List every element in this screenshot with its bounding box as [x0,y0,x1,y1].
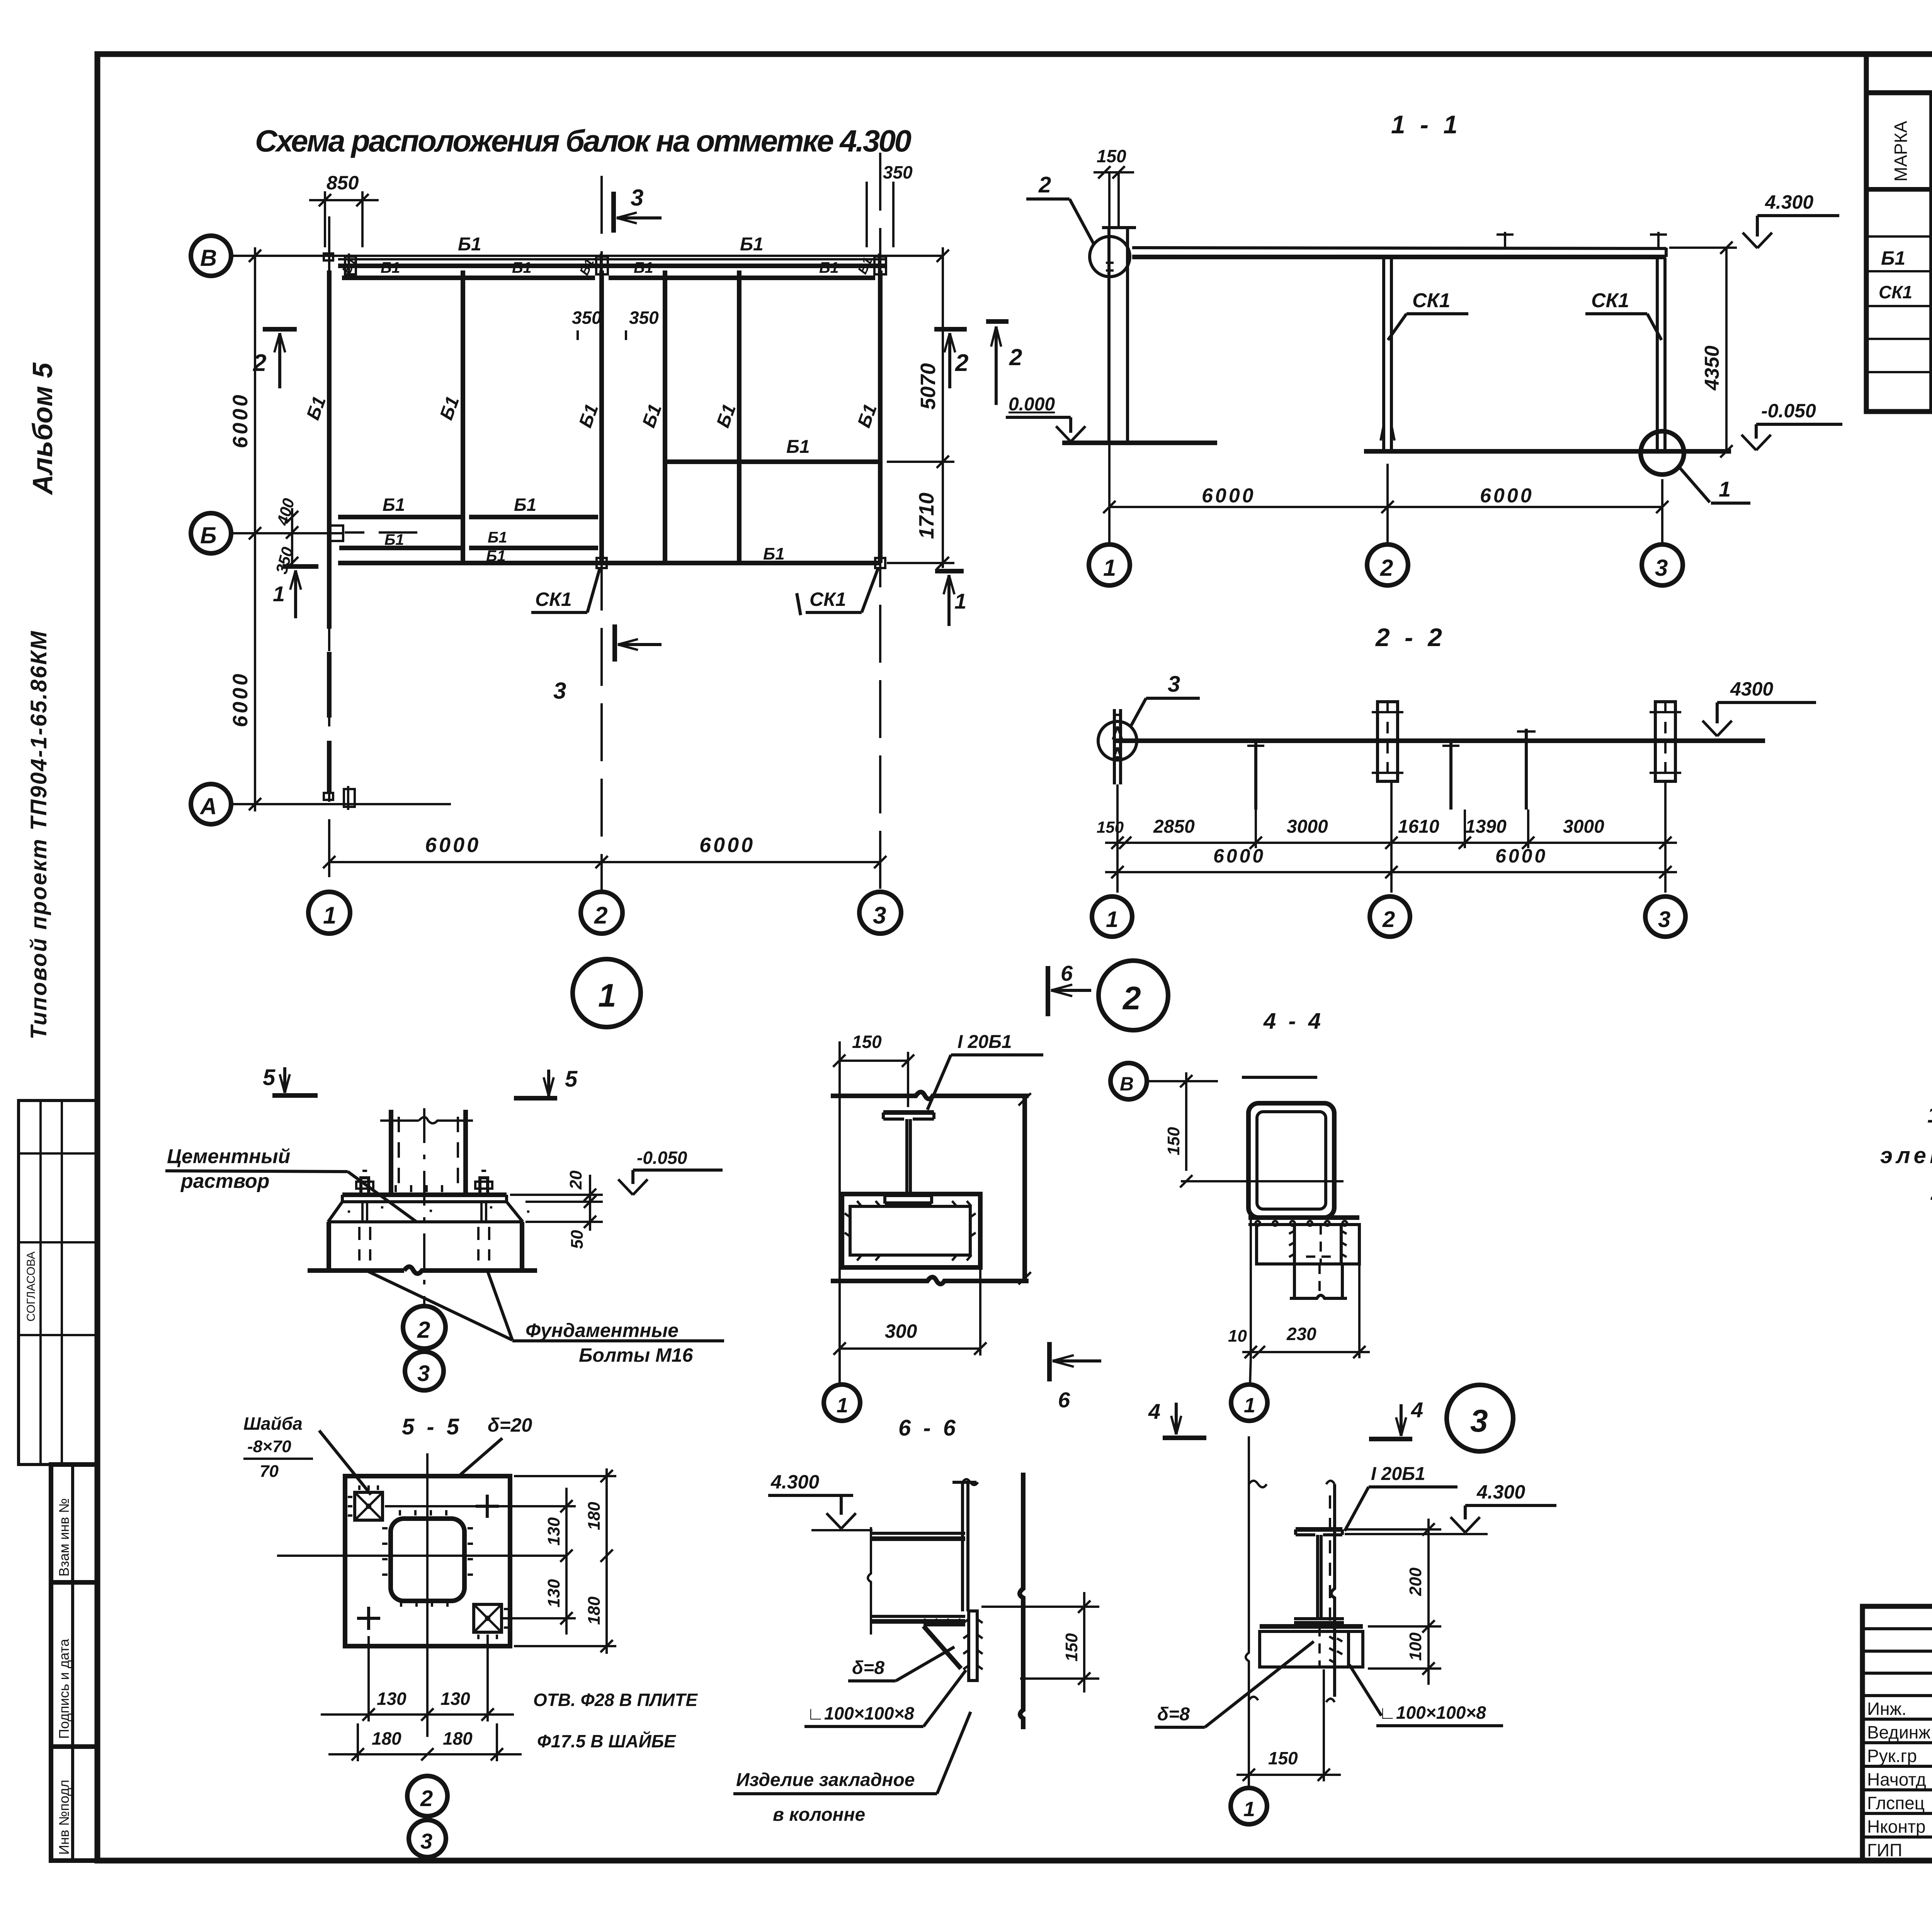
svg-text:2: 2 [420,1786,433,1811]
bolt cross top-right [476,1495,499,1518]
svg-text:1: 1 [1719,477,1731,501]
svg-text:130: 130 [544,1517,563,1546]
embedded plate inner [845,1201,976,1260]
svg-text:3: 3 [417,1361,430,1386]
СК1 post at 2/Б-line [597,558,607,568]
svg-text:4.300: 4.300 [1765,191,1813,213]
bracket of 4-4 [1257,1225,1359,1264]
cross beams Б1 at y=1403 [339,529,598,548]
svg-text:Цементный: Цементный [167,1145,290,1168]
svg-text:180: 180 [585,1596,604,1625]
second dimension row 6000/6000 of section 2-2 [1105,845,1677,878]
beam bottom flange [871,1616,965,1621]
svg-text:1710: 1710 [915,493,938,539]
svg-text:ГИП: ГИП [1867,1840,1902,1860]
note line 3 [1930,1180,1932,1205]
big detail circle 3 [1447,1385,1513,1451]
СК1 label middle [1388,289,1468,340]
svg-text:СК1: СК1 [535,589,572,610]
grid circle 1 of section 1-1 [1089,544,1130,585]
svg-text:Инж.: Инж. [1867,1699,1906,1719]
embedded niche outer [842,1194,980,1267]
svg-text:4: 4 [1411,1398,1423,1422]
detail leader circle 3 at left [1098,672,1200,760]
note line 2 [1880,1143,1932,1168]
svg-text:СК1: СК1 [1412,289,1450,312]
svg-text:6000: 6000 [1202,485,1256,507]
element table ВЕДОМОСТЬ ЭЛЕМЕНТОВ [1866,54,1932,412]
cross beams Б1 at y=1325 [338,495,598,517]
beam mark tick 2 on roof [1650,232,1667,247]
svg-text:1. Конструкции сварные Сварк: 1. Конструкции сварные Сварку производит… [1927,1102,1932,1128]
margin stamp box Взам инв № [51,1465,97,1582]
svg-text:Б1: Б1 [512,259,532,276]
first dimension row of section 2-2 [1097,781,1677,893]
I-beam right node [1294,1529,1344,1623]
I-beam section [883,1112,934,1204]
svg-text:раствор: раствор [180,1170,269,1192]
grid circle Б [191,513,231,553]
left extension line with break [868,1527,871,1635]
bottom dim 130/130 [321,1636,514,1721]
svg-text:Подпись и дата: Подпись и дата [56,1638,72,1739]
label Фундаментные болты М16 [368,1271,724,1366]
svg-text:Болты М16: Болты М16 [579,1344,694,1366]
detail circle 1 at right column base [1641,431,1750,503]
left edge line of 4-4 [1250,1218,1252,1358]
svg-text:3000: 3000 [1563,816,1604,837]
svg-text:Б: Б [200,522,216,548]
СК1 label left [531,569,600,612]
svg-text:5 - 5: 5 - 5 [402,1414,462,1439]
svg-text:150: 150 [1268,1748,1298,1768]
column symbol at Б/1 [328,526,343,541]
svg-text:δ=8: δ=8 [1157,1704,1190,1725]
detail circles 2/3 of base detail [403,1306,446,1349]
svg-text:1: 1 [1243,1798,1255,1821]
grout layer цементный раствор [328,1202,529,1222]
svg-text:Взам инв №: Взам инв № [56,1498,72,1577]
washer bottom-right [474,1604,509,1639]
svg-text:I 20Б1: I 20Б1 [957,1032,1012,1052]
margin stamp box Подпись и дата [51,1582,97,1747]
grid line row Б [231,532,344,534]
svg-text:СК1: СК1 [810,589,846,610]
svg-text:1390: 1390 [1465,816,1507,837]
svg-text:3: 3 [1470,1403,1488,1439]
svg-text:В: В [1120,1073,1134,1095]
svg-text:Б1: Б1 [786,437,810,457]
baseline left of section 1-1 [1062,441,1217,445]
small dims 400/350 near row Б [272,496,298,576]
svg-text:Б1: Б1 [514,495,536,515]
centre lines of plate [277,1453,566,1737]
grid circle 3 [859,892,901,934]
right dimension line 5070/1710 [887,247,954,569]
svg-text:МАРКА: МАРКА [1891,121,1911,182]
section marker 1 left [273,566,318,618]
legs below bracket of 4-4 [1290,1264,1347,1298]
dims 10/230 of 4-4 [1228,1266,1370,1358]
svg-text:200: 200 [1406,1567,1425,1596]
svg-text:6000: 6000 [425,833,481,857]
grid line row А [231,803,451,805]
grid circle 1 of section 2-2 [1092,896,1132,937]
title 5-5 [402,1414,462,1439]
elevation 4.300 right node [1345,1481,1556,1534]
svg-text:СОГЛАСОВА: СОГЛАСОВА [25,1252,37,1322]
bottom dimension line 6000/6000 [323,833,886,868]
ground line under foundation [308,1267,537,1274]
elevation 4.300 right [1743,191,1839,248]
svg-text:СК1: СК1 [1591,289,1629,312]
svg-text:6000: 6000 [1213,845,1265,867]
elevation -0.050 at base detail [618,1148,723,1195]
svg-text:4350: 4350 [1701,345,1723,391]
section marker 4 right [1369,1398,1423,1439]
grid circle 2 [581,892,622,934]
section marker 2 arrow left [986,321,1022,405]
section marker 5 right [514,1067,578,1098]
small beam labels Б1 under row В [339,255,876,277]
grid circle 1 right node [1231,1788,1267,1824]
far right dim 180/180 [514,1468,616,1654]
svg-text:Альбом 5: Альбом 5 [27,362,58,495]
svg-text:-0.050: -0.050 [637,1148,687,1168]
label angle 100x100x8 left node [804,1670,966,1726]
title 4-4 [1263,1009,1324,1034]
margin stamp box Инв №подл [51,1747,97,1861]
vertical beam Б1 on axis 3 [854,270,881,563]
baseline right of section 1-1 [1364,449,1731,454]
svg-text:130: 130 [544,1579,563,1607]
svg-text:Б1: Б1 [1881,247,1905,269]
grid circle В [191,236,231,276]
svg-text:6000: 6000 [1480,485,1534,507]
svg-text:А: А [199,793,217,819]
svg-text:130: 130 [377,1689,406,1709]
svg-text:2. Сварка ручная дуговая hш: 2. Сварка ручная дуговая hш=6мм. [1930,1180,1932,1205]
dim 50 grout [526,1216,603,1249]
svg-text:1 - 1: 1 - 1 [1391,110,1461,139]
svg-text:3: 3 [420,1829,432,1853]
dim 850 at top [309,172,379,247]
svg-text:Б1: Б1 [740,234,764,255]
centre line of base detail [423,1108,425,1305]
column symbol at В/2 [596,253,608,277]
svg-text:В: В [200,245,217,271]
embedded plate assembly right node [1260,1626,1363,1667]
signature names [1867,1699,1932,1860]
svg-text:3: 3 [1655,555,1668,581]
svg-text:4.300: 4.300 [1476,1481,1525,1503]
label I20Б1 [927,1032,1043,1110]
label Цементный раствор [165,1145,417,1222]
grid line row В [231,255,943,257]
grid circle А [191,784,231,824]
hanger beam web x=3950 [1517,729,1536,810]
vertical beam Б1 x=1913 [713,270,740,563]
svg-text:0.000: 0.000 [1009,394,1055,415]
svg-text:Б1: Б1 [458,234,481,255]
grid line column 3 [879,153,881,891]
column faces of left node [952,1473,1023,1729]
svg-text:6000: 6000 [1495,845,1548,867]
svg-text:ОТВ. Ф28 В ПЛИТЕ: ОТВ. Ф28 В ПЛИТЕ [533,1690,698,1710]
right wall edge / dim [1019,1093,1031,1284]
svg-text:1: 1 [1244,1394,1255,1417]
label Б1 on axis1 beam [303,394,330,423]
dims 350 350 at axis2 [572,308,659,340]
svg-text:Ф17.5 В ШАЙБЕ: Ф17.5 В ШАЙБЕ [537,1731,676,1751]
right dim 130/130 [385,1488,576,1635]
svg-text:Б1: Б1 [763,544,785,563]
svg-text:6000: 6000 [229,393,252,448]
label б=8 right node [1155,1641,1314,1727]
svg-text:5: 5 [565,1067,578,1092]
detail circles 2/3 of 5-5 [407,1776,447,1816]
grid line axis1 vertical [1108,172,1111,544]
svg-text:Б1: Б1 [486,548,506,565]
svg-text:Фундаментные: Фундаментные [526,1320,679,1341]
svg-text:150: 150 [852,1032,882,1052]
stub line near row Б [345,531,417,534]
elevation 0.000 [1006,394,1085,442]
svg-text:I 20Б1: I 20Б1 [1371,1464,1425,1484]
svg-text:3000: 3000 [1287,816,1328,837]
svg-text:Б1: Б1 [383,495,405,515]
washer top-left [348,1485,383,1520]
svg-text:∟100×100×8: ∟100×100×8 [1379,1703,1486,1723]
grid circle 3 of section 2-2 [1645,896,1685,937]
base plate square [345,1476,510,1646]
svg-text:3: 3 [1658,907,1670,932]
svg-text:4.300: 4.300 [770,1471,819,1493]
bolt cross bottom-left [357,1607,380,1630]
svg-text:300: 300 [885,1320,917,1342]
cross beam Б1 at y=1195 [665,437,880,462]
label Изделие закладное в колонне [733,1712,971,1825]
section marker 2 right [934,329,968,388]
svg-text:180: 180 [443,1728,473,1749]
column symbol at В/3 [874,253,886,277]
project label: Типовой проект ТП904-1-65.86КМ [26,630,51,1039]
svg-text:Б1: Б1 [384,531,404,548]
svg-text:Схема расположения балок на: Схема расположения балок на отметке 4.30… [255,124,914,158]
left dimension line 6000/6000 [229,247,261,811]
roof beam of section 1-1 [1132,248,1666,257]
bracket gusset of left node [923,1619,965,1669]
tube centre line [1181,1180,1344,1182]
section title 2-2 [1375,623,1446,651]
vertical beam Б1 x=1198 [436,270,464,563]
grid circle 1 of node [824,1385,860,1421]
svg-text:Типовой проект ТП904-1-65.86КМ: Типовой проект ТП904-1-65.86КМ [26,630,51,1039]
svg-text:1: 1 [954,589,966,613]
svg-text:6000: 6000 [699,833,755,857]
svg-text:Рук.гр: Рук.гр [1867,1746,1917,1766]
svg-text:180: 180 [372,1728,401,1749]
СК1 label right [1585,289,1662,340]
svg-text:150: 150 [1097,818,1124,836]
svg-text:1: 1 [837,1394,848,1417]
elevation 4.300 left node [768,1471,872,1530]
svg-text:6: 6 [1058,1388,1070,1412]
section marker 4 left [1148,1399,1206,1438]
elevation -0.050 right [1742,400,1842,450]
title 6-6 [898,1415,959,1441]
svg-text:230: 230 [1286,1324,1316,1344]
svg-text:-8×70: -8×70 [247,1437,291,1456]
svg-text:2850: 2850 [1153,816,1195,837]
grid circle 1 of 4-4 [1231,1358,1267,1421]
svg-text:3: 3 [1168,672,1180,697]
section marker 3 bottom [553,624,662,704]
svg-text:150: 150 [1164,1127,1183,1155]
svg-text:∟100×100×8: ∟100×100×8 [807,1703,914,1723]
section marker 2 left [253,329,297,388]
svg-text:2: 2 [1380,555,1393,581]
svg-text:6000: 6000 [229,672,252,727]
bottom wall edge [831,1277,1029,1284]
anchor bolt right [475,1171,492,1195]
big detail circle 1 under plan [573,959,641,1027]
svg-text:4: 4 [1148,1399,1160,1424]
beam top flange (plan) [871,1533,965,1539]
bearing plate of 4-4 [1248,1218,1359,1226]
dim 150 right node bottom [1236,1669,1341,1781]
tube profile in plate [382,1510,473,1607]
grid circle 2 of section 2-2 [1370,896,1410,937]
svg-text:3: 3 [873,902,886,929]
svg-text:в колонне: в колонне [773,1805,865,1825]
svg-text:4300: 4300 [1730,678,1773,700]
svg-text:350: 350 [572,308,602,328]
section title 1-1 [1391,110,1461,139]
svg-text:130: 130 [440,1689,470,1709]
approval stamp table СОГЛАСОВА [19,1101,97,1465]
note line 1 [1927,1102,1932,1128]
vertical beam Б1 on axis 1 [327,270,332,792]
svg-text:электродами Э42 по ГОСТ 94: электродами Э42 по ГОСТ 9467-75. [1880,1143,1932,1168]
grid circle 3 of section 1-1 [1642,507,1683,585]
svg-text:10: 10 [1228,1327,1247,1345]
svg-text:20: 20 [566,1170,585,1190]
column symbol at А/1 [324,786,451,810]
svg-text:Б1: Б1 [488,529,507,546]
vertical beam Б1 x=1721 [639,270,666,563]
svg-text:180: 180 [585,1502,604,1530]
svg-text:Инв №подл: Инв №подл [56,1780,72,1855]
section marker 5 left [263,1065,318,1095]
left column of section 1-1 [1102,228,1136,443]
dim 100 right node [1368,1626,1441,1685]
svg-text:1: 1 [598,977,616,1014]
СК1 column box at axis3 [1650,702,1681,781]
column symbol at В/1 [324,253,356,277]
svg-text:350: 350 [883,162,913,182]
base plate [342,1185,507,1202]
left column stub [1113,709,1122,784]
beam label Б1 top span 1 [458,234,481,255]
svg-text:6 - 6: 6 - 6 [898,1415,959,1441]
section marker 6 right [1049,1342,1101,1412]
section marker 6 near circle 2 [1048,961,1091,1016]
dim 150 left node [981,1592,1099,1692]
СК1 label right [797,569,878,615]
secondary beam line under row В [342,276,875,280]
long beam Б1 at y=1447 [338,544,880,565]
hanger beam web x=3250 [1247,741,1264,810]
grid line column 2 [600,176,603,891]
dim 200 right node [1345,1519,1441,1633]
label holes Ф28/Ф17.5 [533,1690,698,1751]
top wall edge [831,1092,1029,1099]
svg-text:3: 3 [631,185,643,211]
bottom dim 180/180 [328,1723,522,1761]
svg-text:Б1: Б1 [634,259,653,276]
svg-text:Б1: Б1 [819,259,839,276]
grid line axis1 right node [1246,1436,1249,1789]
svg-text:Глспец: Глспец [1867,1793,1925,1813]
svg-text:2: 2 [417,1317,430,1343]
beam mark tick 1 on roof [1497,232,1514,247]
svg-text:1: 1 [273,582,285,606]
detail leader circle 2 [1026,172,1130,277]
СК1 post at 3/Б-line [875,558,885,568]
svg-text:δ=20: δ=20 [488,1414,532,1436]
svg-text:1: 1 [323,902,336,929]
svg-text:1: 1 [1103,555,1116,581]
grid line column 1 [328,216,330,891]
top collector beam Б1 along row В [338,259,887,266]
svg-text:2: 2 [1122,980,1141,1016]
svg-text:1: 1 [1106,907,1118,932]
elevation 4300 of section 2-2 [1702,678,1816,736]
dim 150 of 4-4 [1164,1072,1192,1187]
section marker 3 top [614,185,662,233]
right column СК1 [1657,258,1665,451]
label Шайба -8x70/70 [243,1414,371,1495]
grid circle 2 of section 1-1 [1367,544,1408,585]
label б=8 left node [848,1647,954,1681]
vertical beam Б1 on axis 2 [575,270,603,563]
column faces right node [1249,1481,1335,1702]
embedded plate of left node [963,1611,983,1681]
svg-text:5: 5 [263,1065,276,1090]
svg-text:2: 2 [1382,907,1395,932]
svg-text:150: 150 [1062,1633,1081,1662]
svg-text:Вединж: Вединж [1867,1722,1930,1742]
svg-text:100: 100 [1406,1632,1425,1661]
square tube section [1248,1103,1334,1218]
dim 150 top of column [1094,146,1134,226]
svg-text:Изделие закладное: Изделие закладное [736,1770,915,1790]
svg-text:70: 70 [260,1462,279,1481]
floor beam line of section 2-2 [1116,738,1765,743]
СК1 column box at axis2 [1372,702,1403,781]
grid circle В of 4-4 [1111,1063,1317,1099]
grid circle 1 [308,892,350,934]
label angle 100x100x8 right node [1349,1665,1503,1726]
big detail circle 2 [1099,961,1168,1030]
svg-text:2: 2 [253,350,266,376]
svg-text:4 - 4: 4 - 4 [1263,1009,1324,1034]
section marker 1 right [935,571,966,626]
drawing title: Схема расположения балок на отметке 4.300 [255,124,914,158]
dim 150 top [833,1032,914,1107]
hanger beam web x=3755 [1442,741,1459,810]
